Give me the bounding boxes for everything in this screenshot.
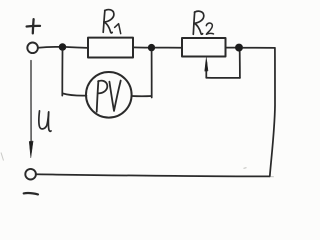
wire R2 to node C [226,47,236,49]
wire R1 to node B [133,46,148,48]
plus sign (+) label of top-left terminal [27,19,40,33]
node C junction dot [235,44,243,52]
bottom wire [36,174,270,176]
voltmeter PV body circle [86,72,132,118]
wiper wire vertical up to node C [239,52,241,78]
label PV [97,81,121,112]
voltage arrow U shaft [30,61,32,144]
faint scan mark left edge [1,153,4,161]
faint scan speck [244,167,247,170]
label R2 [193,11,213,34]
node A junction dot [59,43,67,51]
label U [39,111,51,131]
faint overshoot at bottom-right corner [270,176,274,178]
label R1 [103,10,121,34]
wire PV branch right horizontal [132,95,152,97]
wire from + terminal to node A [38,46,59,49]
R2 wiper arrow shaft [205,62,207,78]
potentiometer R2 body [182,38,226,57]
wire node A to R1 [66,46,88,49]
wire PV branch right vertical up to node B [151,51,153,97]
node B junction dot [148,44,155,51]
minus sign (-) label of bottom terminal [24,193,38,194]
wire PV branch left horizontal [63,93,87,95]
wire node C to top-right corner [243,47,275,49]
right vertical wire [270,48,275,176]
wire node A down (PV branch left vertical) [61,51,63,96]
voltage arrow U head [29,141,33,158]
wire node B to R2 [155,47,182,49]
terminal (-) bottom-left open circle [25,169,36,180]
terminal (+) top-left open circle [27,43,38,54]
resistor R1 body [88,38,133,58]
wiper wire horizontal [206,77,240,79]
R2 wiper arrowhead [205,57,208,71]
